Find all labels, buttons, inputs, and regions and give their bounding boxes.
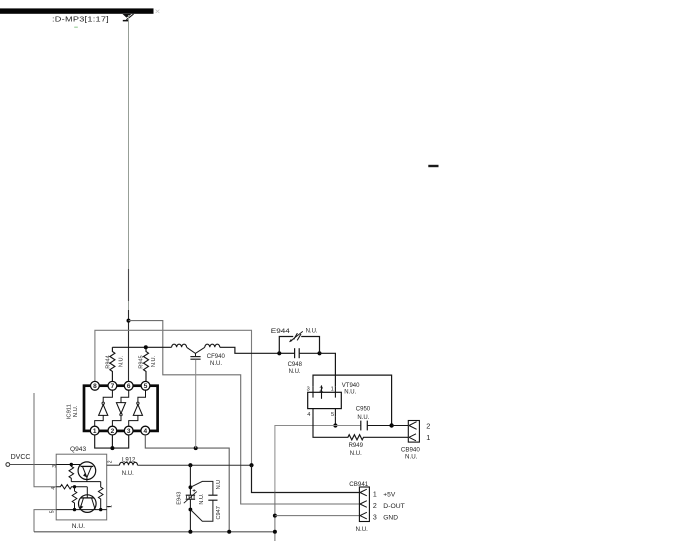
wire IC911 pin 4 to down-bus <box>145 435 229 532</box>
wire DVCC to Q943 pin 3 <box>10 464 57 466</box>
resistor R945 <box>144 347 149 381</box>
svg-text:R944: R944 <box>106 355 112 368</box>
svg-text:N.U.: N.U. <box>72 523 85 530</box>
wire C948 right to VT940 pin 1 <box>320 353 336 387</box>
wire Q943 pin 5 to ground bus <box>34 510 56 532</box>
svg-text:VT940: VT940 <box>342 383 360 389</box>
svg-text:N.U.: N.U. <box>73 405 79 417</box>
svg-text:N.U.: N.U. <box>122 471 134 477</box>
pin 6 <box>124 381 133 390</box>
wire VT940 pin5 down to C950 line <box>334 416 336 425</box>
node GND tap to CB941 pin 3 <box>273 514 277 518</box>
svg-text:CB941: CB941 <box>349 481 368 488</box>
diode D3 inside IC911 <box>129 390 146 426</box>
node G1/+5V junction <box>249 463 253 467</box>
svg-text:1: 1 <box>107 505 113 508</box>
pin 7 <box>108 381 117 390</box>
connector CB940 <box>408 421 419 443</box>
faint x mark <box>156 10 160 13</box>
svg-text:GND: GND <box>383 514 398 521</box>
svg-text:1: 1 <box>373 491 377 498</box>
svg-text:1: 1 <box>331 387 334 393</box>
wire IC911 pins 1-2-3 common <box>95 435 129 448</box>
pin 2 <box>108 426 117 435</box>
svg-text:2: 2 <box>111 428 115 435</box>
svg-text:3: 3 <box>127 428 131 435</box>
wire net G2: junction to D-OUT of CB941 <box>129 321 360 504</box>
svg-text:E943: E943 <box>177 492 183 505</box>
node VT940 pin5 on C950 line <box>333 423 337 427</box>
svg-text:5: 5 <box>331 412 334 418</box>
svg-text:3: 3 <box>373 514 377 521</box>
wire ground bus <box>34 531 275 533</box>
wire main vertical from top connector to IC911 pin 6 <box>128 15 130 321</box>
svg-text:N.U.: N.U. <box>350 451 362 457</box>
svg-text:N.U.: N.U. <box>306 329 318 335</box>
diode D1 inside IC911 <box>95 390 113 426</box>
IC911 body <box>84 386 158 431</box>
svg-text:D-OUT: D-OUT <box>383 503 405 510</box>
off-page connector symbol at top of line <box>123 14 132 18</box>
svg-text:CF940: CF940 <box>207 354 226 360</box>
node bus GND vertical <box>273 530 277 534</box>
wire CF940 out to E944/C948 <box>220 347 279 353</box>
inductor L912 <box>107 462 138 465</box>
capacitor E943 (electrolytic) <box>184 465 197 532</box>
transistor array Q943 <box>56 454 110 520</box>
svg-text:IC911: IC911 <box>66 404 72 419</box>
diode D2 inside IC911 <box>112 390 128 426</box>
svg-text:E944: E944 <box>271 329 291 335</box>
svg-text:2: 2 <box>107 460 113 463</box>
node CF940 cap line meets pin4 wire <box>194 446 198 450</box>
border bar (page frame top) <box>0 8 154 13</box>
pin 8 <box>91 381 100 390</box>
terminal DVCC <box>6 463 10 467</box>
node bus pin4-net <box>227 530 231 534</box>
ferrite bead E944 (parallel branch) <box>279 331 319 353</box>
node bus E943 <box>188 530 192 534</box>
pin 1 <box>90 426 99 435</box>
svg-text:5: 5 <box>144 383 148 390</box>
node pins 1-2-3 join <box>110 446 114 450</box>
svg-text:N.U.: N.U. <box>210 361 222 367</box>
wire Q943 pin 4 stub up (dangling) <box>34 393 56 487</box>
svg-text:C950: C950 <box>356 407 371 413</box>
svg-text:N.U.: N.U. <box>289 369 301 375</box>
svg-text:2: 2 <box>319 386 323 393</box>
capacitor C950 <box>361 421 392 431</box>
pin 5 <box>141 381 150 390</box>
svg-text:+5V: +5V <box>383 491 396 498</box>
pin 4 <box>141 426 150 435</box>
wire net G1: IC911 pin8 up/over/down to +5V net node <box>95 330 252 465</box>
svg-text:N.U: N.U <box>216 480 222 490</box>
pin bars of VT940 <box>312 387 314 398</box>
resistor R944 <box>110 347 115 381</box>
svg-text:7: 7 <box>111 383 115 390</box>
node C948 right <box>317 351 321 355</box>
node C950/loop/CB940 pin2 junction <box>389 423 393 427</box>
resistor R949 with wire VT940 pin4 to CB940 pin 1 <box>313 417 408 440</box>
node R945 top junction <box>144 345 148 349</box>
svg-text:2: 2 <box>373 503 377 510</box>
svg-text:1: 1 <box>426 433 430 442</box>
svg-text:N.U.: N.U. <box>357 415 369 421</box>
svg-text:1: 1 <box>93 428 97 435</box>
svg-text:3: 3 <box>52 465 58 468</box>
svg-text:R945: R945 <box>139 355 145 368</box>
wire L912 to +5V node <box>138 464 252 466</box>
wire resistor tops to CF940 input <box>112 346 171 348</box>
pin 3 <box>124 426 133 435</box>
svg-text:N.U.: N.U. <box>199 493 205 505</box>
connector CB941 <box>359 487 369 522</box>
svg-text:4: 4 <box>143 428 147 435</box>
wire GND vertical with taps <box>274 493 276 541</box>
svg-text:R949: R949 <box>349 443 364 449</box>
node C948 left <box>277 351 281 355</box>
svg-text:N.U.: N.U. <box>405 453 418 460</box>
svg-text:8: 8 <box>93 383 97 390</box>
stray mark dash <box>428 165 438 167</box>
capacitor C947 (parallel branch) <box>190 481 217 521</box>
svg-text:Q943: Q943 <box>70 446 86 453</box>
svg-text:N.U.: N.U. <box>344 390 356 396</box>
wire C950 line to left (down to +5V row) <box>275 426 361 493</box>
svg-text:2: 2 <box>426 422 430 431</box>
svg-text:3: 3 <box>307 387 310 393</box>
svg-text::D-MP3[1:17]: :D-MP3[1:17] <box>52 15 109 24</box>
svg-text:N.U.: N.U. <box>151 355 157 367</box>
wire node to CB940 pin 2 <box>392 425 409 427</box>
svg-text:C947: C947 <box>216 506 222 519</box>
node E943 tap on L912 wire <box>188 463 192 467</box>
svg-text:DVCC: DVCC <box>11 454 31 461</box>
filter CF940 <box>172 344 220 359</box>
filter VT940 body <box>308 392 342 408</box>
svg-text:6: 6 <box>127 383 131 390</box>
svg-text:L912: L912 <box>122 458 136 464</box>
svg-text:N.U.: N.U. <box>356 526 369 533</box>
svg-text:C948: C948 <box>288 362 303 368</box>
stray speck <box>74 27 78 28</box>
svg-text:N.U.: N.U. <box>119 355 125 367</box>
node junction on main vertical (D-OUT tap) <box>127 319 131 323</box>
capacitor C948 <box>279 348 319 358</box>
wire +5V: node down and to CB941 pin 1 <box>252 465 360 492</box>
wire VT940 pin3 loop to C950 right node <box>313 375 392 425</box>
svg-text:5: 5 <box>49 510 55 513</box>
wire GND tap to CB941 pin 3 <box>275 515 359 517</box>
wire CF940 cap to pin4 net <box>195 360 197 448</box>
svg-text:4: 4 <box>307 412 310 418</box>
